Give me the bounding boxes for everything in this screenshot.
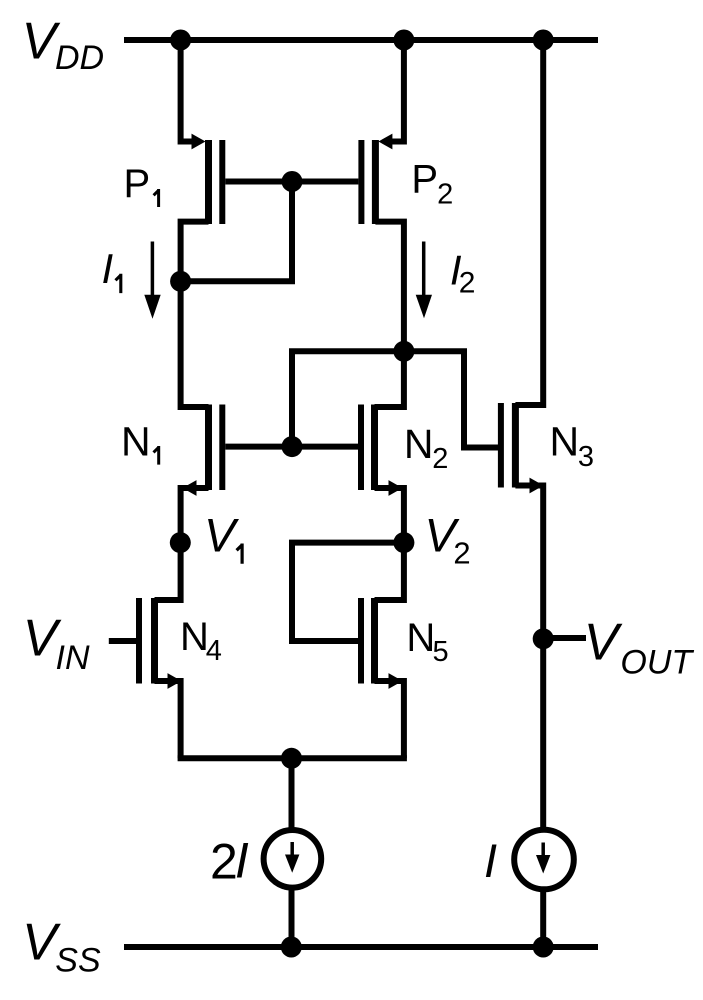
label N5 (406, 616, 448, 668)
label I2 (450, 246, 476, 299)
svg-text:2: 2 (437, 179, 453, 211)
wire VIN to N4 gate (109, 638, 136, 644)
wire N4 source to tail node (155, 681, 181, 758)
wire P1 gate to P2 gate (225, 179, 358, 185)
label N2 (404, 421, 448, 475)
svg-text:V: V (584, 614, 623, 672)
label N1 (121, 419, 159, 465)
svg-text:5: 5 (433, 636, 449, 668)
wire P2 drain to node A (375, 222, 404, 352)
current source 2I (264, 830, 322, 888)
transistor P1 (192, 134, 223, 224)
junction VDD at P2 (393, 30, 414, 51)
wire N2 source to N5 drain (375, 488, 404, 600)
junction P1 drain node (170, 271, 191, 292)
wire N5 source to tail node (375, 681, 404, 758)
current arrow I2 (416, 242, 432, 319)
junction P gate node (282, 171, 303, 192)
svg-text:OUT: OUT (620, 644, 694, 682)
svg-text:I: I (102, 245, 114, 292)
label I (484, 834, 497, 887)
label VIN (23, 610, 90, 677)
label V2 (425, 508, 471, 570)
label 2I (210, 833, 249, 890)
power rail VDD (124, 37, 598, 43)
svg-text:P: P (411, 158, 438, 202)
svg-text:N: N (406, 616, 435, 660)
wire N1 source to N4 drain (155, 488, 209, 600)
wire gate feedback node to P1 drain (181, 182, 292, 282)
label N3 (550, 418, 595, 472)
svg-text:I: I (235, 833, 249, 889)
svg-text:2: 2 (210, 834, 238, 890)
svg-text:2: 2 (459, 267, 476, 300)
wire node A to N gate line and N3 gate (292, 351, 498, 447)
junction VSS at I (533, 937, 554, 958)
wire VDD to N3 drain (515, 40, 543, 405)
svg-text:N: N (550, 418, 580, 464)
transistor N3 (501, 403, 544, 493)
label I1 (102, 245, 121, 293)
label VSS (22, 913, 101, 979)
svg-text:N: N (180, 615, 209, 659)
wire VDD to P2 source (392, 40, 404, 142)
svg-text:3: 3 (578, 441, 594, 473)
wire N2 drain (375, 351, 404, 407)
transistor N2 (361, 405, 403, 496)
svg-text:N: N (404, 421, 434, 467)
current source I (514, 830, 574, 890)
svg-text:V: V (204, 508, 239, 561)
junction VDD at P1 (170, 30, 191, 51)
svg-text:N: N (121, 419, 151, 465)
power rail VSS (124, 944, 598, 950)
transistor P2 (361, 134, 392, 224)
label VDD (22, 13, 105, 78)
junction VDD at N3 (533, 30, 554, 51)
label P1 (124, 162, 159, 207)
transistor N4 (139, 598, 182, 689)
wire VOUT stub (543, 635, 586, 641)
node A junction (393, 341, 414, 362)
node VOUT junction (533, 628, 554, 649)
transistor N5 (361, 598, 403, 689)
svg-text:DD: DD (55, 39, 104, 77)
wire current source I to VSS (540, 888, 546, 947)
label P2 (411, 158, 453, 211)
label V1 (204, 508, 242, 563)
node V2 junction (393, 532, 414, 553)
wire P1 drain to N1 drain (181, 222, 209, 407)
current arrow I1 (144, 242, 160, 319)
transistor N1 (183, 405, 223, 496)
wire current source 2I to VSS (289, 887, 295, 947)
node V1 junction (170, 532, 191, 553)
wire VDD to P1 source (181, 40, 192, 142)
wire tail node to current source 2I (289, 758, 295, 831)
svg-text:SS: SS (55, 941, 101, 979)
svg-text:IN: IN (56, 639, 90, 677)
svg-text:2: 2 (453, 536, 470, 571)
wire N3 source to VOUT node (515, 486, 543, 832)
svg-text:2: 2 (432, 443, 448, 475)
junction VSS at 2I (281, 937, 302, 958)
wire N1 gate to N2 gate (225, 444, 359, 450)
label N4 (180, 615, 222, 667)
junction N gate node (282, 436, 303, 457)
label VOUT (584, 614, 695, 682)
junction tail node (281, 748, 302, 769)
svg-text:P: P (124, 162, 151, 206)
wire node V2 to N5 gate (292, 543, 404, 641)
svg-text:I: I (484, 834, 497, 887)
wire tail node horizontal (178, 755, 407, 761)
svg-text:4: 4 (206, 635, 222, 667)
